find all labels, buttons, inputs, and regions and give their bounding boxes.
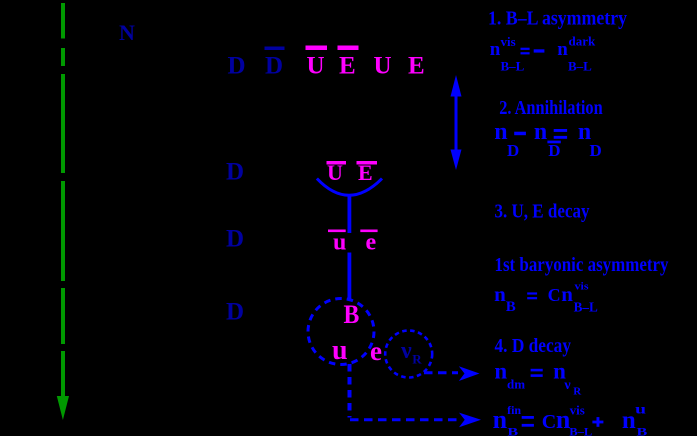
annihilation double arrow	[455, 93, 458, 153]
svg-text:B: B	[506, 299, 516, 315]
svg-text:R: R	[412, 351, 422, 366]
svg-text:e: e	[370, 336, 382, 366]
svg-text:B–L: B–L	[574, 301, 598, 316]
bound state B circle	[308, 299, 374, 365]
svg-text:B: B	[507, 425, 518, 436]
eq1: n^vis_B-L = - n^dark_B-L	[490, 34, 596, 74]
svg-text:B–L: B–L	[501, 59, 525, 74]
svg-text:u: u	[332, 335, 348, 366]
svg-text:E: E	[408, 52, 425, 79]
svg-text:n: n	[494, 282, 506, 306]
svg-text:u: u	[333, 230, 346, 256]
svg-text:vis: vis	[575, 280, 590, 292]
svg-text:2. Annihilation: 2. Annihilation	[499, 97, 603, 119]
svg-text:dm: dm	[507, 376, 525, 391]
svg-text:u: u	[635, 403, 646, 418]
svg-text:B: B	[637, 424, 648, 436]
eq3: n_B = C n^vis_B-L	[494, 280, 598, 315]
svg-text:n: n	[561, 282, 573, 306]
svg-text:ν: ν	[563, 378, 571, 393]
svg-text:N: N	[119, 20, 135, 45]
svg-text:n: n	[494, 359, 507, 384]
svg-text:C: C	[542, 411, 556, 433]
svg-text:dark: dark	[569, 34, 597, 49]
dashed wire u decay vertical	[348, 364, 352, 418]
svg-text:1. B–L asymmetry: 1. B–L asymmetry	[488, 8, 627, 30]
nu_R circle	[385, 331, 432, 378]
svg-text:D: D	[507, 141, 519, 160]
svg-text:E: E	[339, 52, 356, 79]
svg-text:D: D	[265, 52, 283, 79]
svg-text:B–L: B–L	[569, 424, 592, 436]
svg-text:vis: vis	[501, 34, 516, 49]
svg-text:D: D	[228, 52, 246, 79]
wire vertical lower	[347, 253, 351, 300]
svg-text:ν: ν	[400, 338, 412, 364]
svg-text:n: n	[494, 119, 507, 145]
decay arc	[317, 179, 382, 196]
svg-text:D: D	[590, 141, 602, 160]
green time arrow	[61, 3, 65, 398]
svg-text:C: C	[548, 285, 561, 305]
svg-text:3. U, E decay: 3. U, E decay	[495, 201, 590, 223]
svg-text:D: D	[548, 141, 560, 160]
svg-text:1st baryonic asymmetry: 1st baryonic asymmetry	[495, 254, 669, 276]
svg-text:D: D	[226, 226, 244, 253]
wire vertical upper	[347, 196, 351, 234]
svg-text:vis: vis	[570, 403, 585, 418]
eq2: n_D - n_Dbar = n_D	[494, 119, 601, 160]
svg-text:n: n	[622, 407, 636, 434]
svg-text:D: D	[226, 159, 244, 186]
svg-text:fin: fin	[507, 403, 521, 417]
eq4: n_dm = n_nuR	[494, 359, 582, 398]
svg-text:4. D decay: 4. D decay	[495, 335, 572, 357]
svg-text:n: n	[557, 39, 568, 60]
dashed wire u decay horizontal	[350, 418, 457, 421]
svg-text:n: n	[490, 39, 501, 60]
dashed arrow nu_R to n_dm	[424, 371, 458, 374]
svg-text:D: D	[226, 299, 244, 326]
eq5: n^fin_B = C n^vis_B-L + n^u_B	[493, 403, 648, 436]
svg-text:B–L: B–L	[568, 59, 592, 74]
svg-text:n: n	[534, 119, 547, 145]
svg-text:R: R	[573, 386, 582, 398]
green arrowhead	[57, 396, 69, 420]
svg-text:n: n	[493, 405, 508, 434]
svg-text:e: e	[366, 230, 377, 256]
svg-text:U: U	[374, 52, 392, 79]
svg-text:U: U	[307, 52, 325, 79]
svg-text:B: B	[344, 300, 360, 329]
